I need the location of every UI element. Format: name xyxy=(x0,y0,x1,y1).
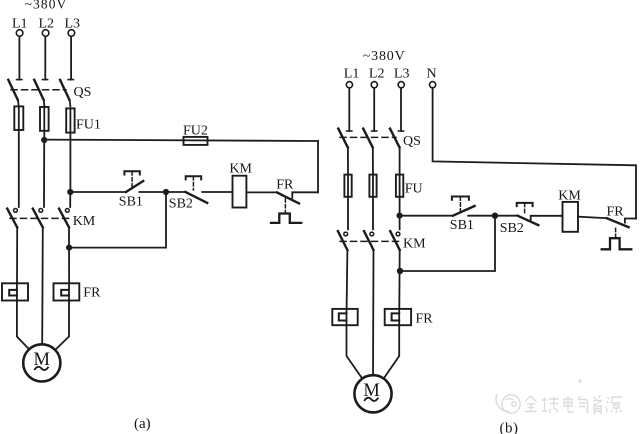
svg-text:QS: QS xyxy=(403,134,421,149)
svg-text:FR: FR xyxy=(83,286,101,301)
svg-text:L3: L3 xyxy=(65,17,81,32)
svg-text:FR: FR xyxy=(276,178,294,193)
svg-text:SB1: SB1 xyxy=(450,218,474,233)
svg-text:FR: FR xyxy=(416,312,434,327)
svg-text:~380V: ~380V xyxy=(25,0,68,11)
svg-text:SB2: SB2 xyxy=(500,221,524,236)
svg-text:L2: L2 xyxy=(369,66,385,81)
svg-text:FU1: FU1 xyxy=(76,118,101,133)
svg-text:N: N xyxy=(427,66,437,81)
svg-text:KM: KM xyxy=(73,214,96,229)
svg-text:M: M xyxy=(363,381,379,401)
svg-text:QS: QS xyxy=(74,85,92,100)
svg-text:KM: KM xyxy=(403,237,426,252)
svg-text:L1: L1 xyxy=(12,17,28,32)
svg-text:(b): (b) xyxy=(500,421,519,434)
svg-text:M: M xyxy=(34,350,50,370)
svg-text:L1: L1 xyxy=(344,66,360,81)
svg-text:L2: L2 xyxy=(39,17,55,32)
svg-text:SB1: SB1 xyxy=(119,194,143,209)
svg-text:~380V: ~380V xyxy=(363,49,406,64)
svg-text:FU2: FU2 xyxy=(183,123,208,138)
svg-text:KM: KM xyxy=(229,161,252,176)
svg-text:SB2: SB2 xyxy=(169,196,193,211)
svg-text:(a): (a) xyxy=(134,416,151,432)
svg-text:KM: KM xyxy=(558,188,581,203)
svg-text:FU: FU xyxy=(405,182,423,197)
svg-text:FR: FR xyxy=(607,204,625,219)
svg-text:L3: L3 xyxy=(394,66,410,81)
